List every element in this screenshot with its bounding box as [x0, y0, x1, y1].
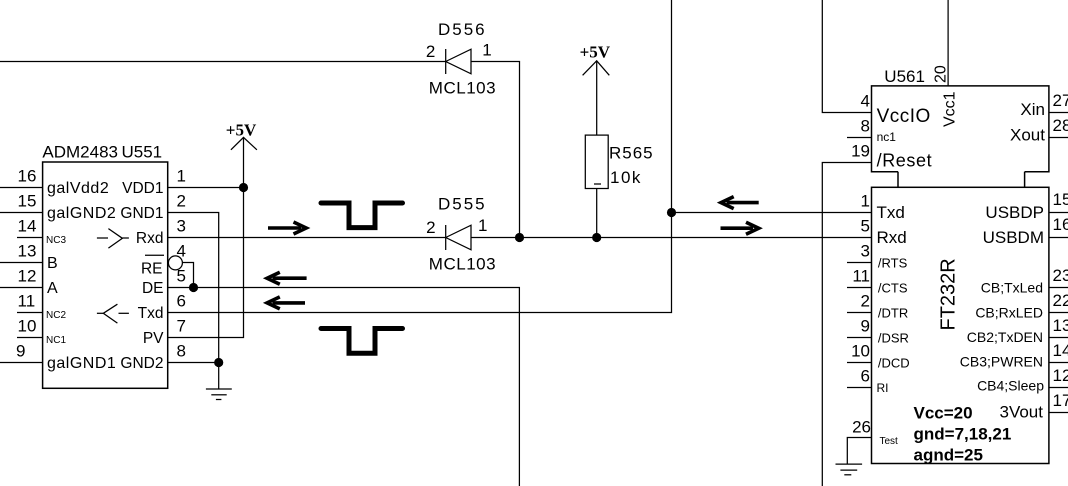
svg-text:Rxd: Rxd [877, 228, 907, 247]
svg-text:RE: RE [141, 261, 163, 278]
svg-text:6: 6 [861, 367, 870, 386]
svg-text:/DSR: /DSR [878, 330, 909, 345]
svg-text:USBDP: USBDP [985, 203, 1044, 222]
svg-text:10: 10 [18, 317, 37, 336]
svg-text:8: 8 [177, 342, 186, 361]
U561 power note text [914, 404, 1012, 465]
node junction +5V/VDD1/PV [239, 183, 248, 192]
svg-text:GND2: GND2 [120, 355, 163, 372]
svg-text:11: 11 [18, 292, 36, 311]
svg-text:NC3: NC3 [46, 235, 66, 246]
flow arrow right on Rxd net [268, 222, 306, 234]
svg-text:PV: PV [143, 330, 164, 347]
wire +5V down to PV pin7 [168, 188, 244, 338]
svg-text:Txd: Txd [877, 203, 905, 222]
node junction Txd/FT232R pin1 [667, 208, 676, 217]
U561 upper left pin labels [877, 106, 933, 171]
svg-text:D556: D556 [438, 20, 487, 39]
node junction R565/Rxd net [592, 233, 601, 242]
U561 lower right pin numbers 15,16,23,22,13,14,12,17 [1053, 190, 1068, 410]
U551 left pin labels [46, 180, 116, 372]
svg-text:12: 12 [18, 267, 37, 286]
wire CB;TxLed pin23 stub [1049, 287, 1068, 289]
flow arrow left on Txd net [267, 297, 305, 309]
svg-text:15: 15 [18, 192, 37, 211]
svg-text:MCL103: MCL103 [429, 79, 496, 98]
wire D555 anode to FT232R Rxd pin5 [471, 237, 872, 239]
ground symbol at U551 [206, 363, 232, 400]
wire USBDM pin16 stub [1049, 237, 1068, 239]
svg-text:1: 1 [482, 41, 491, 60]
svg-text:2: 2 [426, 42, 435, 61]
wire 3Vout pin17 stub [1049, 412, 1068, 414]
svg-text:/RTS: /RTS [878, 255, 908, 270]
U561 upper right pin numbers 27,28 [1053, 91, 1068, 135]
wire RI pin6 stub [847, 387, 872, 389]
svg-text:26: 26 [852, 418, 871, 437]
wire top net to D556 cathode [0, 61, 446, 63]
wire pin15 galGND2 [0, 212, 43, 214]
svg-text:/DCD: /DCD [878, 355, 910, 370]
svg-text:CB3;PWREN: CB3;PWREN [960, 354, 1043, 370]
svg-text:23: 23 [1053, 266, 1068, 285]
svg-text:U551: U551 [122, 143, 163, 162]
svg-text:5: 5 [861, 217, 870, 236]
svg-text:11: 11 [852, 267, 870, 286]
svg-text:12: 12 [1053, 366, 1068, 385]
svg-text:/Reset: /Reset [877, 151, 933, 171]
wire CB2;TxDEN pin13 stub [1049, 337, 1068, 339]
svg-text:3Vout: 3Vout [1000, 403, 1044, 422]
wire pin12 A [0, 287, 43, 289]
svg-text:22: 22 [1053, 291, 1068, 310]
svg-text:U561: U561 [884, 67, 925, 86]
node junction GND2/ground [214, 358, 223, 367]
svg-text:galGND1: galGND1 [47, 355, 116, 372]
svg-text:ADM2483: ADM2483 [42, 143, 118, 162]
pulse waveform symbol bottom [321, 329, 403, 354]
wire FT232R Txd pin1 [672, 212, 872, 214]
wire pin9 galGND1 [0, 362, 43, 364]
ground symbol at Test pin [836, 464, 863, 475]
svg-text:4: 4 [861, 92, 870, 111]
U561 lower right pin labels [960, 203, 1044, 422]
svg-text:R565: R565 [609, 144, 654, 163]
power +5V symbol at U551 [226, 121, 257, 188]
power +5V symbol at R565 [580, 43, 611, 135]
svg-text:Vcc=20: Vcc=20 [914, 404, 973, 423]
wire /DTR pin2 stub [847, 312, 872, 314]
resistor R565 10k [585, 135, 653, 188]
U551 right pin numbers 1..8 [177, 167, 186, 361]
wire CB3;PWREN pin14 stub [1049, 362, 1068, 364]
svg-text:1: 1 [861, 192, 870, 211]
svg-text:4: 4 [177, 242, 186, 261]
U551 Txd internal buffer arrow [97, 304, 129, 323]
svg-text:14: 14 [18, 217, 37, 236]
svg-text:13: 13 [1053, 316, 1068, 335]
svg-text:nc1: nc1 [877, 130, 897, 144]
node junction D556/Rxd net [515, 233, 524, 242]
svg-text:FT232R: FT232R [938, 258, 960, 330]
svg-text:VDD1: VDD1 [122, 180, 163, 197]
svg-text:2: 2 [861, 292, 870, 311]
U551 right pin labels [120, 180, 164, 372]
svg-text:14: 14 [1053, 341, 1068, 360]
svg-text:Xin: Xin [1020, 100, 1045, 119]
svg-text:/DTR: /DTR [878, 305, 908, 320]
svg-text:10k: 10k [610, 168, 642, 187]
U551 left pin numbers 16,15,14,13,12,11,10,9 [16, 167, 36, 361]
op-amp U551 ADM2483 isolator IC body [42, 143, 167, 389]
svg-text:3: 3 [177, 217, 186, 236]
svg-text:USBDM: USBDM [983, 228, 1044, 247]
wire /DSR pin9 stub [847, 337, 872, 339]
svg-text:CB;RxLED: CB;RxLED [975, 305, 1043, 321]
wire /DCD pin10 stub [847, 362, 872, 364]
svg-text:27: 27 [1053, 91, 1068, 110]
svg-text:2: 2 [426, 218, 435, 237]
wire /Reset pin19 to bottom [822, 163, 871, 486]
U561 lower left pin numbers 1,5,3,11,2,9,10,6,26 [851, 192, 871, 437]
svg-text:galVdd2: galVdd2 [47, 180, 109, 197]
flow arrow left at FT232R Txd [721, 197, 759, 209]
wire GND1 pin2 down to GND2 [168, 213, 219, 363]
wire CB4;Sleep pin12 stub [1049, 387, 1068, 389]
svg-text:10: 10 [851, 342, 870, 361]
svg-text:2: 2 [177, 192, 186, 211]
wire Test pin26 to ground [847, 438, 871, 465]
diode D555 MCL103 [426, 195, 496, 274]
svg-text:RI: RI [877, 381, 889, 395]
wire R565 to Rxd net [596, 189, 598, 238]
wire D556 anode down to Rxd net [471, 62, 520, 238]
svg-text:9: 9 [16, 342, 25, 361]
wire pin16 galVdd2 [0, 187, 43, 189]
svg-text:1: 1 [478, 216, 487, 235]
wire Xin pin27 stub [1049, 112, 1068, 114]
op-amp U561 FT232R upper section body [872, 67, 1049, 187]
svg-text:CB2;TxDEN: CB2;TxDEN [967, 329, 1043, 345]
svg-text:20: 20 [933, 65, 950, 83]
wire pin13 B [0, 262, 43, 264]
wire Rxd pin3 to D555 cathode [168, 237, 446, 239]
svg-text:6: 6 [177, 292, 186, 311]
svg-text:NC1: NC1 [46, 335, 66, 346]
svg-text:3: 3 [861, 242, 870, 261]
wire Txd pin6 up to FT232R Txd [168, 0, 672, 313]
svg-text:VccIO: VccIO [877, 106, 931, 127]
svg-text:GND1: GND1 [120, 205, 163, 222]
wire VccIO pin4 from top [822, 0, 871, 113]
svg-text:16: 16 [1053, 215, 1068, 234]
svg-text:+5V: +5V [226, 121, 257, 140]
wire USBDP pin15 stub [1049, 212, 1068, 214]
svg-text:8: 8 [861, 117, 870, 136]
svg-text:/CTS: /CTS [878, 280, 908, 295]
svg-text:Test: Test [880, 436, 899, 447]
U551 Rxd internal buffer arrow [97, 229, 129, 249]
pulse waveform symbol top [321, 203, 403, 228]
wire pin14 NC3 stub [17, 237, 43, 239]
svg-text:28: 28 [1053, 116, 1068, 135]
U561 rotated Vcc1 label pin 20 [933, 65, 959, 127]
wire GND2 pin8 [168, 362, 219, 364]
svg-text:Txd: Txd [138, 305, 164, 322]
svg-text:Rxd: Rxd [136, 230, 164, 247]
wire Vcc1 pin20 to top [947, 0, 949, 86]
svg-text:Xout: Xout [1010, 126, 1045, 145]
svg-text:gnd=7,18,21: gnd=7,18,21 [914, 425, 1012, 444]
wire DE pin5 to down bus [168, 288, 520, 486]
svg-text:DE: DE [142, 280, 164, 297]
svg-text:9: 9 [861, 317, 870, 336]
svg-text:15: 15 [1053, 190, 1068, 209]
U561 lower left pin labels [877, 203, 910, 447]
U561 upper pin numbers 4,8,19 [851, 92, 870, 161]
svg-text:MCL103: MCL103 [429, 255, 496, 274]
wire VDD1 pin1 to +5V junction [168, 187, 244, 189]
svg-text:16: 16 [18, 167, 37, 186]
op-amp U561 FT232R lower section body [872, 187, 1049, 463]
svg-text:A: A [47, 280, 58, 297]
svg-text:CB;TxLed: CB;TxLed [981, 280, 1043, 296]
wire CB;RxLED pin22 stub [1049, 312, 1068, 314]
svg-text:13: 13 [18, 242, 37, 261]
wire /CTS pin11 stub [847, 287, 872, 289]
svg-text:galGND2: galGND2 [47, 205, 116, 222]
svg-text:1: 1 [177, 167, 186, 186]
U551 RE pin inversion bubble [168, 256, 182, 270]
svg-text:NC2: NC2 [46, 310, 66, 321]
svg-text:CB4;Sleep: CB4;Sleep [977, 378, 1044, 394]
svg-text:19: 19 [851, 142, 870, 161]
U561 upper right pin labels Xin Xout [1010, 100, 1045, 145]
wire RE pin4 to DE junction [182, 263, 193, 288]
svg-text:B: B [47, 255, 58, 272]
svg-text:agnd=25: agnd=25 [914, 446, 983, 465]
diode D556 MCL103 [426, 20, 496, 98]
flow arrow left on DE net [267, 272, 307, 284]
wire pin10 NC1 stub [17, 337, 43, 339]
flow arrow right at FT232R Rxd [721, 222, 759, 234]
svg-text:17: 17 [1053, 391, 1068, 410]
wire Xout pin28 stub [1049, 137, 1068, 139]
node junction RE/DE [189, 283, 198, 292]
svg-text:+5V: +5V [580, 43, 611, 62]
wire pin11 NC2 stub [17, 312, 43, 314]
wire /RTS pin3 stub [847, 262, 872, 264]
svg-text:D555: D555 [438, 195, 487, 214]
wire nc1 pin8 stub [847, 137, 872, 139]
svg-text:7: 7 [177, 317, 186, 336]
svg-text:Vcc1: Vcc1 [942, 91, 959, 127]
